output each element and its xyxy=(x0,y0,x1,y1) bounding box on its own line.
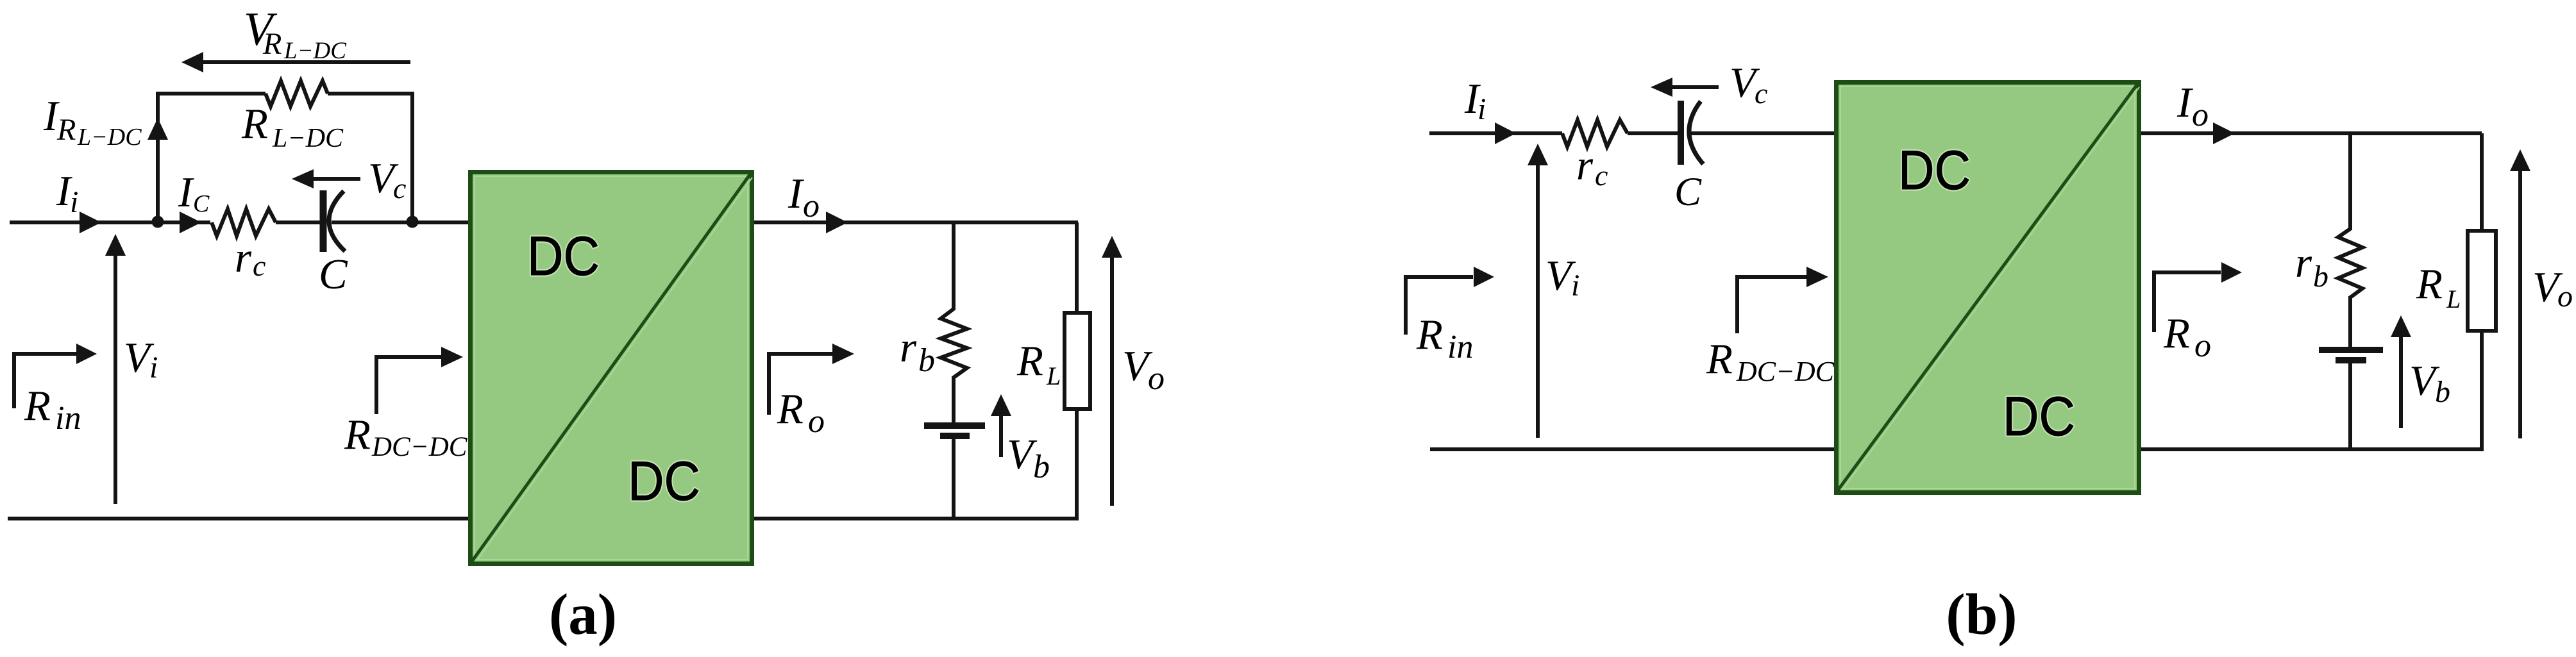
svg-text:i: i xyxy=(1571,269,1579,303)
junction dot B (a) xyxy=(407,216,419,228)
wire bottom left (a) xyxy=(8,517,470,520)
wire node B to converter (a) xyxy=(412,220,470,224)
capacitor C curved plate (b) xyxy=(1689,101,1703,164)
label V_RL-DC (a) xyxy=(244,3,347,64)
svg-text:o: o xyxy=(808,403,825,440)
converter block U1 inner highlight (a) xyxy=(475,176,748,560)
svg-text:R: R xyxy=(2416,260,2443,308)
arrowhead I_o (a) xyxy=(826,212,848,233)
wire upper-branch left (a) xyxy=(158,94,265,222)
label r_c (b) xyxy=(1576,142,1608,192)
wire output top (b) xyxy=(2139,131,2482,135)
svg-text:i: i xyxy=(149,351,158,385)
wire resistor to capacitor (a) xyxy=(276,220,321,224)
svg-text:b: b xyxy=(918,342,935,379)
svg-text:r: r xyxy=(2295,239,2312,287)
V_RLDC arrow line (a) xyxy=(202,60,410,64)
svg-text:(a): (a) xyxy=(549,582,617,647)
arrowhead V_c left (a) xyxy=(292,169,314,188)
V_c arrow line (a) xyxy=(311,177,360,181)
wire battery to bottom (a) xyxy=(952,437,955,519)
converter block U2 diagonal (b) xyxy=(1837,83,2138,491)
svg-text:R: R xyxy=(2163,310,2190,357)
arrowhead V_c left (b) xyxy=(1651,78,1672,97)
arrowhead R_o (a) xyxy=(832,344,854,364)
svg-text:b: b xyxy=(2435,375,2450,409)
label I_C (a) xyxy=(178,169,210,217)
converter block U1 diagonal highlight (a) xyxy=(477,178,752,560)
arrowhead V_b up (b) xyxy=(2391,315,2411,337)
svg-text:DC: DC xyxy=(1898,140,1971,201)
R_o bracket (b) xyxy=(2154,272,2221,332)
svg-text:in: in xyxy=(1447,329,1473,365)
svg-text:L−DC: L−DC xyxy=(283,38,347,64)
svg-text:R: R xyxy=(56,113,76,147)
label R_o (b) xyxy=(2163,310,2211,364)
svg-text:DC−DC: DC−DC xyxy=(371,432,468,462)
label I_i (a) xyxy=(56,167,78,219)
wire rb to battery (b) xyxy=(2348,296,2352,347)
wire rb branch upper (a) xyxy=(952,222,955,310)
arrowhead V_RLDC left (a) xyxy=(181,52,203,72)
R_o bracket (a) xyxy=(769,354,834,415)
svg-text:I: I xyxy=(787,170,804,217)
V_b arrow line (b) xyxy=(2399,337,2403,428)
svg-text:c: c xyxy=(253,249,265,282)
svg-text:R: R xyxy=(1416,311,1443,358)
converter block U2 (b) xyxy=(1837,83,2139,493)
wire RL branch lower (a) xyxy=(1075,409,1079,520)
svg-text:R: R xyxy=(1706,335,1733,383)
wire RL branch upper (a) xyxy=(1075,222,1079,313)
wire bottom left (b) xyxy=(1430,447,1836,451)
V_b arrow line (a) xyxy=(999,415,1003,457)
battery Vb plate short (b) xyxy=(2336,357,2366,363)
arrowhead I_C (a) xyxy=(180,212,201,233)
svg-text:L−DC: L−DC xyxy=(77,124,142,151)
arrowhead R_in (b) xyxy=(1474,267,1494,287)
resistor rb zigzag (b) xyxy=(2338,229,2362,297)
R_DCDC bracket (a) xyxy=(376,357,442,414)
svg-text:R: R xyxy=(24,382,51,429)
capacitor C plate bar (a) xyxy=(320,190,327,252)
R_DCDC bracket (b) xyxy=(1737,277,1808,333)
arrowhead I_i (b) xyxy=(1495,122,1516,144)
svg-text:L−DC: L−DC xyxy=(272,124,344,153)
V_o arrow line (a) xyxy=(1110,257,1114,506)
svg-text:c: c xyxy=(393,172,406,204)
label R_DC-DC (a) xyxy=(344,411,468,462)
label R_DC-DC (b) xyxy=(1706,335,1835,387)
wire resistor to capacitor (b) xyxy=(1628,131,1679,135)
resistor RL-DC zigzag (a) xyxy=(265,81,328,106)
R_in bracket (b) xyxy=(1406,277,1473,335)
svg-text:b: b xyxy=(1033,449,1050,485)
svg-text:R: R xyxy=(344,411,371,458)
V_i arrow line (a) xyxy=(114,255,117,504)
arrowhead I_o (b) xyxy=(2213,122,2235,144)
label I_RL-DC (a) xyxy=(43,92,142,151)
svg-text:R: R xyxy=(241,100,268,147)
label V_c (a) xyxy=(368,154,406,204)
R_in bracket (a) xyxy=(14,354,77,408)
svg-text:I: I xyxy=(178,169,194,216)
label V_b (b) xyxy=(2409,357,2450,409)
label V_i (a) xyxy=(124,334,158,385)
svg-text:o: o xyxy=(1148,360,1165,397)
junction dot A (a) xyxy=(152,216,164,228)
V_o arrow line (b) xyxy=(2518,170,2522,438)
arrowhead R_DCDC (b) xyxy=(1806,267,1828,287)
svg-text:DC: DC xyxy=(2003,386,2075,447)
V_i arrow line (b) xyxy=(1536,165,1540,438)
wire output top (a) xyxy=(752,220,1078,224)
battery Vb plate short (a) xyxy=(940,433,970,439)
svg-text:L: L xyxy=(1046,362,1061,390)
label R_L (a) xyxy=(1016,337,1061,390)
label I_i (b) xyxy=(1464,75,1486,126)
battery Vb plate long (b) xyxy=(2319,347,2383,353)
svg-text:DC−DC: DC−DC xyxy=(1736,356,1835,387)
svg-text:I: I xyxy=(2176,79,2193,126)
svg-text:o: o xyxy=(2557,279,2573,313)
label R_L (b) xyxy=(2416,260,2461,313)
label r_b (b) xyxy=(2295,239,2328,294)
arrowhead R_DCDC (a) xyxy=(441,347,463,367)
wire input left (b) xyxy=(1429,131,1562,135)
label R_L-DC (a) xyxy=(241,100,344,153)
wire rb to battery (a) xyxy=(952,376,955,423)
label r_c (a) xyxy=(235,234,265,282)
svg-text:r: r xyxy=(1576,142,1594,189)
wire bottom right (b) xyxy=(2139,447,2484,451)
arrowhead I_i (a) xyxy=(80,212,101,233)
svg-text:o: o xyxy=(2192,97,2209,133)
label r_b (a) xyxy=(900,324,935,379)
converter block U1 diagonal (a) xyxy=(471,173,751,562)
svg-text:R: R xyxy=(262,27,282,61)
svg-text:DC: DC xyxy=(628,451,700,512)
wire capacitor to converter (b) xyxy=(1689,131,1836,135)
resistor RL box (b) xyxy=(2468,231,2496,331)
svg-text:C: C xyxy=(1674,169,1702,214)
wire RL branch upper (b) xyxy=(2480,133,2484,231)
svg-text:L: L xyxy=(2446,285,2461,313)
label V_o (a) xyxy=(1122,342,1165,397)
svg-text:i: i xyxy=(70,185,78,219)
resistor RL box (a) xyxy=(1065,313,1090,409)
arrowhead V_i up (b) xyxy=(1528,144,1548,165)
label V_o (b) xyxy=(2532,263,2573,313)
label V_i (b) xyxy=(1545,252,1579,303)
svg-text:i: i xyxy=(1477,92,1486,126)
resistor rb zigzag (a) xyxy=(941,309,967,378)
label V_b (a) xyxy=(1007,431,1050,485)
resistor rc zigzag (b) xyxy=(1562,120,1628,147)
svg-text:R: R xyxy=(1016,337,1043,385)
wire battery to bottom (b) xyxy=(2348,362,2352,449)
wire rb branch upper (b) xyxy=(2348,133,2352,230)
label R_o (a) xyxy=(777,385,825,440)
converter block U2 diagonal highlight (b) xyxy=(1843,87,2139,489)
svg-text:c: c xyxy=(1595,159,1608,192)
label R_in (a) xyxy=(24,382,81,437)
wire capacitor to node B (a) xyxy=(332,220,412,224)
svg-text:C: C xyxy=(193,190,210,217)
arrowhead V_i up (a) xyxy=(105,234,126,256)
svg-text:c: c xyxy=(1755,77,1767,110)
svg-text:in: in xyxy=(55,400,81,437)
label I_o (a) xyxy=(787,170,820,224)
arrowhead R_in (a) xyxy=(76,344,97,364)
arrowhead V_b up (a) xyxy=(991,394,1011,416)
arrowhead V_o up (b) xyxy=(2510,149,2530,171)
battery Vb plate long (a) xyxy=(924,422,985,429)
wire bottom right (a) xyxy=(752,517,1079,520)
arrowhead R_o (b) xyxy=(2221,262,2242,283)
converter block U1 (a) xyxy=(471,172,752,564)
svg-text:R: R xyxy=(777,385,804,433)
wire input left (a) xyxy=(10,220,158,224)
label I_o (b) xyxy=(2176,79,2209,133)
capacitor C plate bar (b) xyxy=(1678,101,1684,165)
capacitor C curved plate (a) xyxy=(329,191,345,251)
label R_in (b) xyxy=(1416,311,1473,365)
wire node A to resistor (a) xyxy=(158,220,210,224)
arrowhead I_RLDC up (a) xyxy=(147,118,168,140)
resistor rc zigzag (a) xyxy=(212,209,276,236)
svg-text:r: r xyxy=(900,324,917,371)
arrowhead V_o up (a) xyxy=(1102,236,1122,258)
svg-text:o: o xyxy=(2194,328,2211,364)
converter block U2 inner highlight (b) xyxy=(1840,87,2135,488)
wire RL branch lower (b) xyxy=(2480,331,2484,451)
V_c arrow line (b) xyxy=(1671,85,1719,89)
svg-text:(b): (b) xyxy=(1946,582,2017,647)
svg-text:DC: DC xyxy=(527,226,600,287)
svg-text:C: C xyxy=(319,251,348,298)
svg-text:b: b xyxy=(2313,260,2328,294)
label V_c (b) xyxy=(1730,59,1767,110)
wire upper-branch right (a) xyxy=(328,94,412,222)
svg-text:r: r xyxy=(235,234,252,281)
svg-text:o: o xyxy=(803,188,820,224)
